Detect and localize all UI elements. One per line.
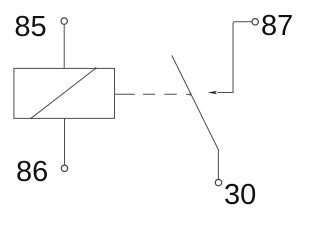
wire terminal 87 to arrow (218, 22, 252, 93)
junction dot at coil diagonal bottom (30, 117, 32, 119)
wire coil to terminal 86 (64, 118, 66, 165)
terminal circle 86 (61, 165, 67, 171)
terminal circle 85 (61, 18, 67, 24)
terminal circle 30 (215, 179, 221, 185)
dashed actuation link line (115, 93, 191, 95)
junction dot at coil diagonal top (95, 67, 97, 69)
terminal circle 87 (252, 19, 258, 25)
arrowhead pointing at blade (208, 91, 218, 95)
wire terminal 85 to coil (63, 24, 65, 68)
switch blade 30-87 (172, 55, 219, 179)
svg-text:86: 86 (16, 156, 48, 188)
svg-text:85: 85 (14, 11, 46, 43)
coil diagonal stroke (31, 68, 96, 118)
junction dot on blade (189, 93, 191, 95)
svg-text:87: 87 (261, 10, 293, 42)
svg-text:30: 30 (224, 179, 256, 211)
relay coil box K1 (14, 68, 115, 118)
